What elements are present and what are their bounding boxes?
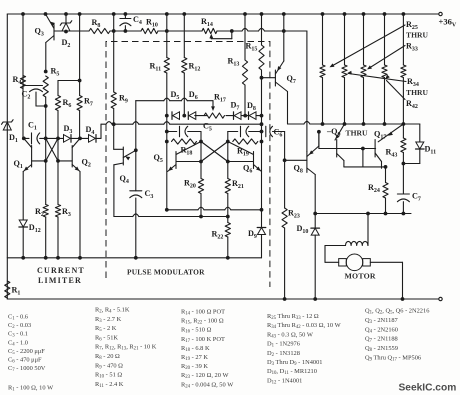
resistor R7 xyxy=(77,96,93,111)
resistor R13 xyxy=(228,57,248,86)
diode D5 xyxy=(171,90,180,119)
wire diagonal to Q2 xyxy=(46,138,58,161)
wire R6 top link xyxy=(58,81,80,96)
wire Q8 base drive vertical xyxy=(306,31,308,152)
wire modulator low row xyxy=(114,214,230,218)
junction output rail xyxy=(402,122,406,126)
transistor Q1 xyxy=(14,138,32,171)
label R25 THRU R33 xyxy=(406,20,428,53)
wire link vertical xyxy=(135,101,137,151)
transistor Q17 xyxy=(375,124,403,168)
junction on ground bus xyxy=(283,297,287,301)
resistor R6 xyxy=(55,96,71,111)
wire flipflop left rail xyxy=(165,116,169,212)
wire ground return bus xyxy=(7,298,438,300)
wire Q6 base xyxy=(228,161,254,163)
wire R4 branch xyxy=(22,14,24,138)
svg-text:R3 - 2.7 K: R3 - 2.7 K xyxy=(95,316,122,324)
wire cross diagonal 2 xyxy=(201,142,228,162)
svg-text:THRU: THRU xyxy=(346,129,368,138)
resistor R19 xyxy=(233,139,258,158)
transistor Q9 xyxy=(326,124,345,167)
svg-text:R9 - 470 Ω: R9 - 470 Ω xyxy=(95,362,123,370)
list value R1 xyxy=(8,385,54,393)
resistor R8 xyxy=(89,18,110,34)
capacitor C5 right xyxy=(228,126,264,136)
diode D12 xyxy=(19,220,41,234)
list value xyxy=(95,381,124,389)
label C5 xyxy=(203,122,212,133)
wire R5 bottom xyxy=(45,97,47,138)
resistor R18 xyxy=(172,139,197,157)
svg-text:R7, R12, R13, R21 - 10 K: R7, R12, R13, R21 - 10 K xyxy=(95,344,157,352)
svg-text:MOTOR: MOTOR xyxy=(345,272,376,281)
wire Q2 base stub xyxy=(58,160,72,162)
wiper arrow R14 xyxy=(209,34,213,39)
wire modulator mid row xyxy=(167,207,264,211)
wire C4 branch vertical xyxy=(113,14,115,31)
resistor R43 xyxy=(386,124,407,165)
capacitor C1 xyxy=(28,121,40,144)
wire link top xyxy=(136,98,215,111)
capacitor C2 xyxy=(22,86,46,107)
svg-text:R6 - 51K: R6 - 51K xyxy=(95,334,118,342)
wire Q1 emitter xyxy=(22,172,24,221)
resistor R9 xyxy=(111,92,128,109)
wire Q1 base stub xyxy=(32,160,46,162)
label R34 THRU R42 xyxy=(406,77,428,110)
list value C5 xyxy=(8,348,45,356)
resistor R10 xyxy=(141,18,158,34)
list value xyxy=(181,309,225,317)
resistor bank fourth xyxy=(382,14,387,124)
list value xyxy=(267,313,319,321)
resistor R24 xyxy=(368,167,388,214)
wire Q2 emitter xyxy=(79,172,81,258)
wire D3 to D4 xyxy=(71,137,89,141)
junction on +36V bus xyxy=(362,12,366,16)
list value xyxy=(365,326,398,334)
resistor bank fifth xyxy=(401,14,406,124)
diode D4 xyxy=(86,125,97,142)
svg-text:R34 Thru R42 - 0.03 Ω, 10 W: R34 Thru R42 - 0.03 Ω, 10 W xyxy=(267,322,342,330)
wire R12 bottom xyxy=(182,73,186,118)
junction on +36V bus xyxy=(64,12,68,16)
label CURRENT LIMITER xyxy=(37,266,85,285)
svg-text:C3 - 0.1: C3 - 0.1 xyxy=(8,331,28,339)
wire R9 branch xyxy=(113,31,115,92)
diode D7 xyxy=(231,101,242,120)
wire R11 branch xyxy=(166,14,168,58)
junction on +36V bus xyxy=(343,12,347,16)
wire R10 to R14 xyxy=(158,29,202,33)
junction on +36V bus xyxy=(44,12,48,16)
wire diagonal to Q1 xyxy=(46,138,58,161)
wire motor top row xyxy=(313,212,411,216)
svg-text:SeekIC.com: SeekIC.com xyxy=(399,383,457,394)
list value xyxy=(267,359,322,367)
junction on lower bus xyxy=(78,256,82,260)
capacitor C6 xyxy=(262,126,285,138)
svg-text:THRU: THRU xyxy=(406,31,428,40)
list value xyxy=(181,363,208,371)
list value xyxy=(267,368,317,376)
resistor R20 xyxy=(184,162,204,217)
wire Q8 base link xyxy=(285,159,307,161)
pointer arrow R25 group xyxy=(330,25,406,67)
svg-text:PULSE MODULATOR: PULSE MODULATOR xyxy=(127,268,205,277)
junction R6 top xyxy=(78,79,82,83)
list value C6 xyxy=(8,357,42,365)
list value C3 xyxy=(8,331,28,339)
inductor field coil xyxy=(325,214,368,246)
junction on +36V bus xyxy=(112,12,116,16)
diode D8 xyxy=(247,101,256,119)
resistor R2 xyxy=(35,161,48,258)
wire D6 to R17 xyxy=(195,115,207,117)
pointer arrow R33 group xyxy=(367,46,405,70)
junction R5 top xyxy=(44,70,48,74)
junction R5 bottom C2 xyxy=(44,104,48,108)
wire base collector link xyxy=(362,149,364,167)
capacitor C3 xyxy=(130,150,154,257)
wire R11 bottom xyxy=(165,73,169,118)
transistor Q5 xyxy=(154,142,202,172)
dashed border pulse modulator box xyxy=(106,42,270,288)
wire Q9 base xyxy=(319,132,376,151)
svg-text:R10 - 51 Ω: R10 - 51 Ω xyxy=(95,372,122,380)
list value xyxy=(95,372,122,380)
junction on +36V bus xyxy=(383,12,387,16)
list value C7 xyxy=(8,365,46,373)
svg-text:CURRENT: CURRENT xyxy=(37,266,85,275)
svg-text:C2 - 0.03: C2 - 0.03 xyxy=(8,322,31,330)
svg-text:R8 - 20 Ω: R8 - 20 Ω xyxy=(95,353,120,361)
terminal +36V xyxy=(439,12,457,28)
junction output rail xyxy=(321,122,325,126)
list value xyxy=(365,308,429,316)
wire base line Q3 to R8 xyxy=(54,30,66,32)
motor M xyxy=(339,254,371,271)
wire Q8 collector drop xyxy=(314,175,316,214)
list value xyxy=(267,322,342,330)
resistor R15 xyxy=(246,42,265,71)
list value xyxy=(181,354,208,362)
transistor Q7 xyxy=(262,14,296,124)
junction on lower bus xyxy=(21,256,25,260)
junction output rail xyxy=(383,122,387,126)
potentiometer R17 xyxy=(204,93,226,119)
wire D8 out xyxy=(256,114,263,118)
junction on lower bus xyxy=(226,256,230,260)
pointer arrow R34 group xyxy=(347,71,406,82)
wire C4 to R10 xyxy=(125,30,141,32)
svg-text:R20 - 39 K: R20 - 39 K xyxy=(181,363,208,371)
list value C2 xyxy=(8,322,31,330)
resistor bank R25-R33 first xyxy=(320,14,325,124)
transistor Q3 xyxy=(35,14,55,72)
capacitor C4 xyxy=(120,14,142,33)
diode D6 xyxy=(188,90,197,119)
svg-text:C1 - 0.6: C1 - 0.6 xyxy=(8,314,28,322)
wire left edge vertical xyxy=(6,14,8,299)
junction on +36V bus xyxy=(402,12,406,16)
terminal ground return xyxy=(439,297,442,300)
wire R14 wiper tie xyxy=(211,29,233,39)
wire line to Q8 base drive xyxy=(217,28,307,32)
wire Q4 lower lead xyxy=(113,165,115,217)
list value xyxy=(95,307,130,315)
junction on +36V bus xyxy=(243,12,247,16)
wire cross diagonal 1 xyxy=(201,142,228,162)
junction on +36V bus xyxy=(21,12,25,16)
list value xyxy=(95,362,123,370)
wire R17 to D7 xyxy=(226,115,234,117)
resistor R12 xyxy=(182,58,201,74)
junction on +36V bus xyxy=(182,12,186,16)
wire D12 to bus xyxy=(22,227,24,258)
svg-text:R5 - 2 K: R5 - 2 K xyxy=(95,325,117,333)
list value xyxy=(267,377,302,385)
resistor R3 xyxy=(55,161,71,258)
wire motor right xyxy=(370,262,402,299)
junction on +36V bus xyxy=(260,12,264,16)
list value xyxy=(181,327,212,335)
transistor Q4 xyxy=(114,147,138,185)
label THRU Q17 xyxy=(346,129,387,141)
wire R15 bottom xyxy=(260,70,264,116)
wire D2 to R8 xyxy=(66,30,89,32)
diode D10 xyxy=(297,214,320,300)
junction on ground bus xyxy=(313,297,317,301)
list value xyxy=(95,316,122,324)
wire R7 bottom xyxy=(79,111,81,139)
junction on +36V bus xyxy=(78,12,82,16)
wire output rail xyxy=(288,121,404,124)
wire flipflop right rail xyxy=(260,116,264,210)
wire R13 bottom xyxy=(244,85,246,116)
watermark SeekIC.com xyxy=(399,383,457,394)
junction on lower bus xyxy=(134,256,138,260)
junction output rail xyxy=(362,122,366,126)
resistor R11 xyxy=(150,58,170,74)
junction on +36V bus xyxy=(124,12,128,16)
list value xyxy=(95,334,118,342)
resistor bank second xyxy=(342,14,347,124)
wire R7 branch xyxy=(79,14,81,96)
resistor R4 xyxy=(13,75,26,89)
junction on ground bus xyxy=(401,297,405,301)
svg-text:Q1, Q2, Q5, Q6 - 2N2216: Q1, Q2, Q5, Q6 - 2N2216 xyxy=(365,308,429,316)
label PULSE MODULATOR xyxy=(127,268,205,277)
junction on lower bus xyxy=(56,256,60,260)
junction Q8 emitter xyxy=(317,130,321,134)
wire cross couple right xyxy=(56,138,60,162)
list value xyxy=(181,345,210,353)
wire Q5 base xyxy=(176,161,201,163)
list value xyxy=(181,372,230,380)
resistor R23 xyxy=(282,208,300,299)
capacitor C7 xyxy=(397,164,421,214)
list value xyxy=(267,350,300,358)
svg-text:THRU: THRU xyxy=(406,88,428,97)
wire flipflop node B xyxy=(226,132,230,164)
label MOTOR xyxy=(345,272,376,281)
zener diode D2 xyxy=(60,14,72,49)
capacitor C5 left xyxy=(167,126,201,136)
junction on +36V bus xyxy=(282,12,286,16)
wire trigger row xyxy=(101,122,263,126)
wire R8 to C4 node xyxy=(110,29,125,33)
list value xyxy=(95,325,117,333)
list value xyxy=(365,336,398,344)
wire flip-flop input row xyxy=(22,137,29,141)
diode D9 xyxy=(248,210,266,258)
wire lower common bus xyxy=(7,257,261,259)
svg-text:LIMITER: LIMITER xyxy=(38,276,82,285)
wire cross couple left xyxy=(44,138,48,162)
wire flipflop node A xyxy=(199,132,203,164)
svg-text:R1 - 100 Ω, 10 W: R1 - 100 Ω, 10 W xyxy=(8,385,54,393)
wire motor left xyxy=(325,246,339,263)
list value C1 xyxy=(8,314,28,322)
svg-text:R19 - 27 K: R19 - 27 K xyxy=(181,354,208,362)
transistor Q6 xyxy=(228,142,262,175)
list value xyxy=(95,353,120,361)
resistor R22 xyxy=(212,217,231,258)
svg-text:C4 - 1.0: C4 - 1.0 xyxy=(8,339,28,347)
resistor R5 xyxy=(43,67,59,98)
zener diode D1 xyxy=(2,120,18,145)
wire +36V top supply bus xyxy=(7,13,438,15)
list value xyxy=(181,336,225,344)
list value xyxy=(267,341,300,349)
diode D3 xyxy=(64,124,73,142)
potentiometer R14 xyxy=(201,17,217,34)
resistor R1 xyxy=(5,281,21,298)
wire C6 to Q8 base xyxy=(283,132,287,209)
wire D4 out xyxy=(96,124,101,138)
wire C1 to D3 xyxy=(40,137,64,141)
wire output collector row xyxy=(344,165,388,169)
wire R15 branch xyxy=(261,14,263,45)
transistor Q8 xyxy=(294,132,319,175)
list value xyxy=(267,331,314,339)
junction on lower bus xyxy=(44,256,48,260)
wire R6 bottom xyxy=(57,111,59,139)
junction on +36V bus xyxy=(165,12,169,16)
wire R9 bottom xyxy=(113,109,115,150)
list value xyxy=(95,344,157,352)
diode D11 xyxy=(403,124,436,164)
junction on +36V bus xyxy=(321,12,325,16)
transistor Q2 xyxy=(72,138,91,171)
list value C4 xyxy=(8,339,28,347)
pointer arrow R42 group xyxy=(385,75,405,100)
resistor R21 xyxy=(225,162,244,217)
junction output rail xyxy=(343,122,347,126)
wire R13 branch xyxy=(244,14,246,60)
resistor bank third xyxy=(361,14,366,124)
list value xyxy=(365,317,399,325)
list value xyxy=(181,381,234,389)
wire R12 branch xyxy=(183,14,185,58)
list value xyxy=(365,355,421,363)
list value xyxy=(181,318,224,326)
wire D7 D8 junction xyxy=(241,114,249,118)
list value xyxy=(365,345,398,353)
